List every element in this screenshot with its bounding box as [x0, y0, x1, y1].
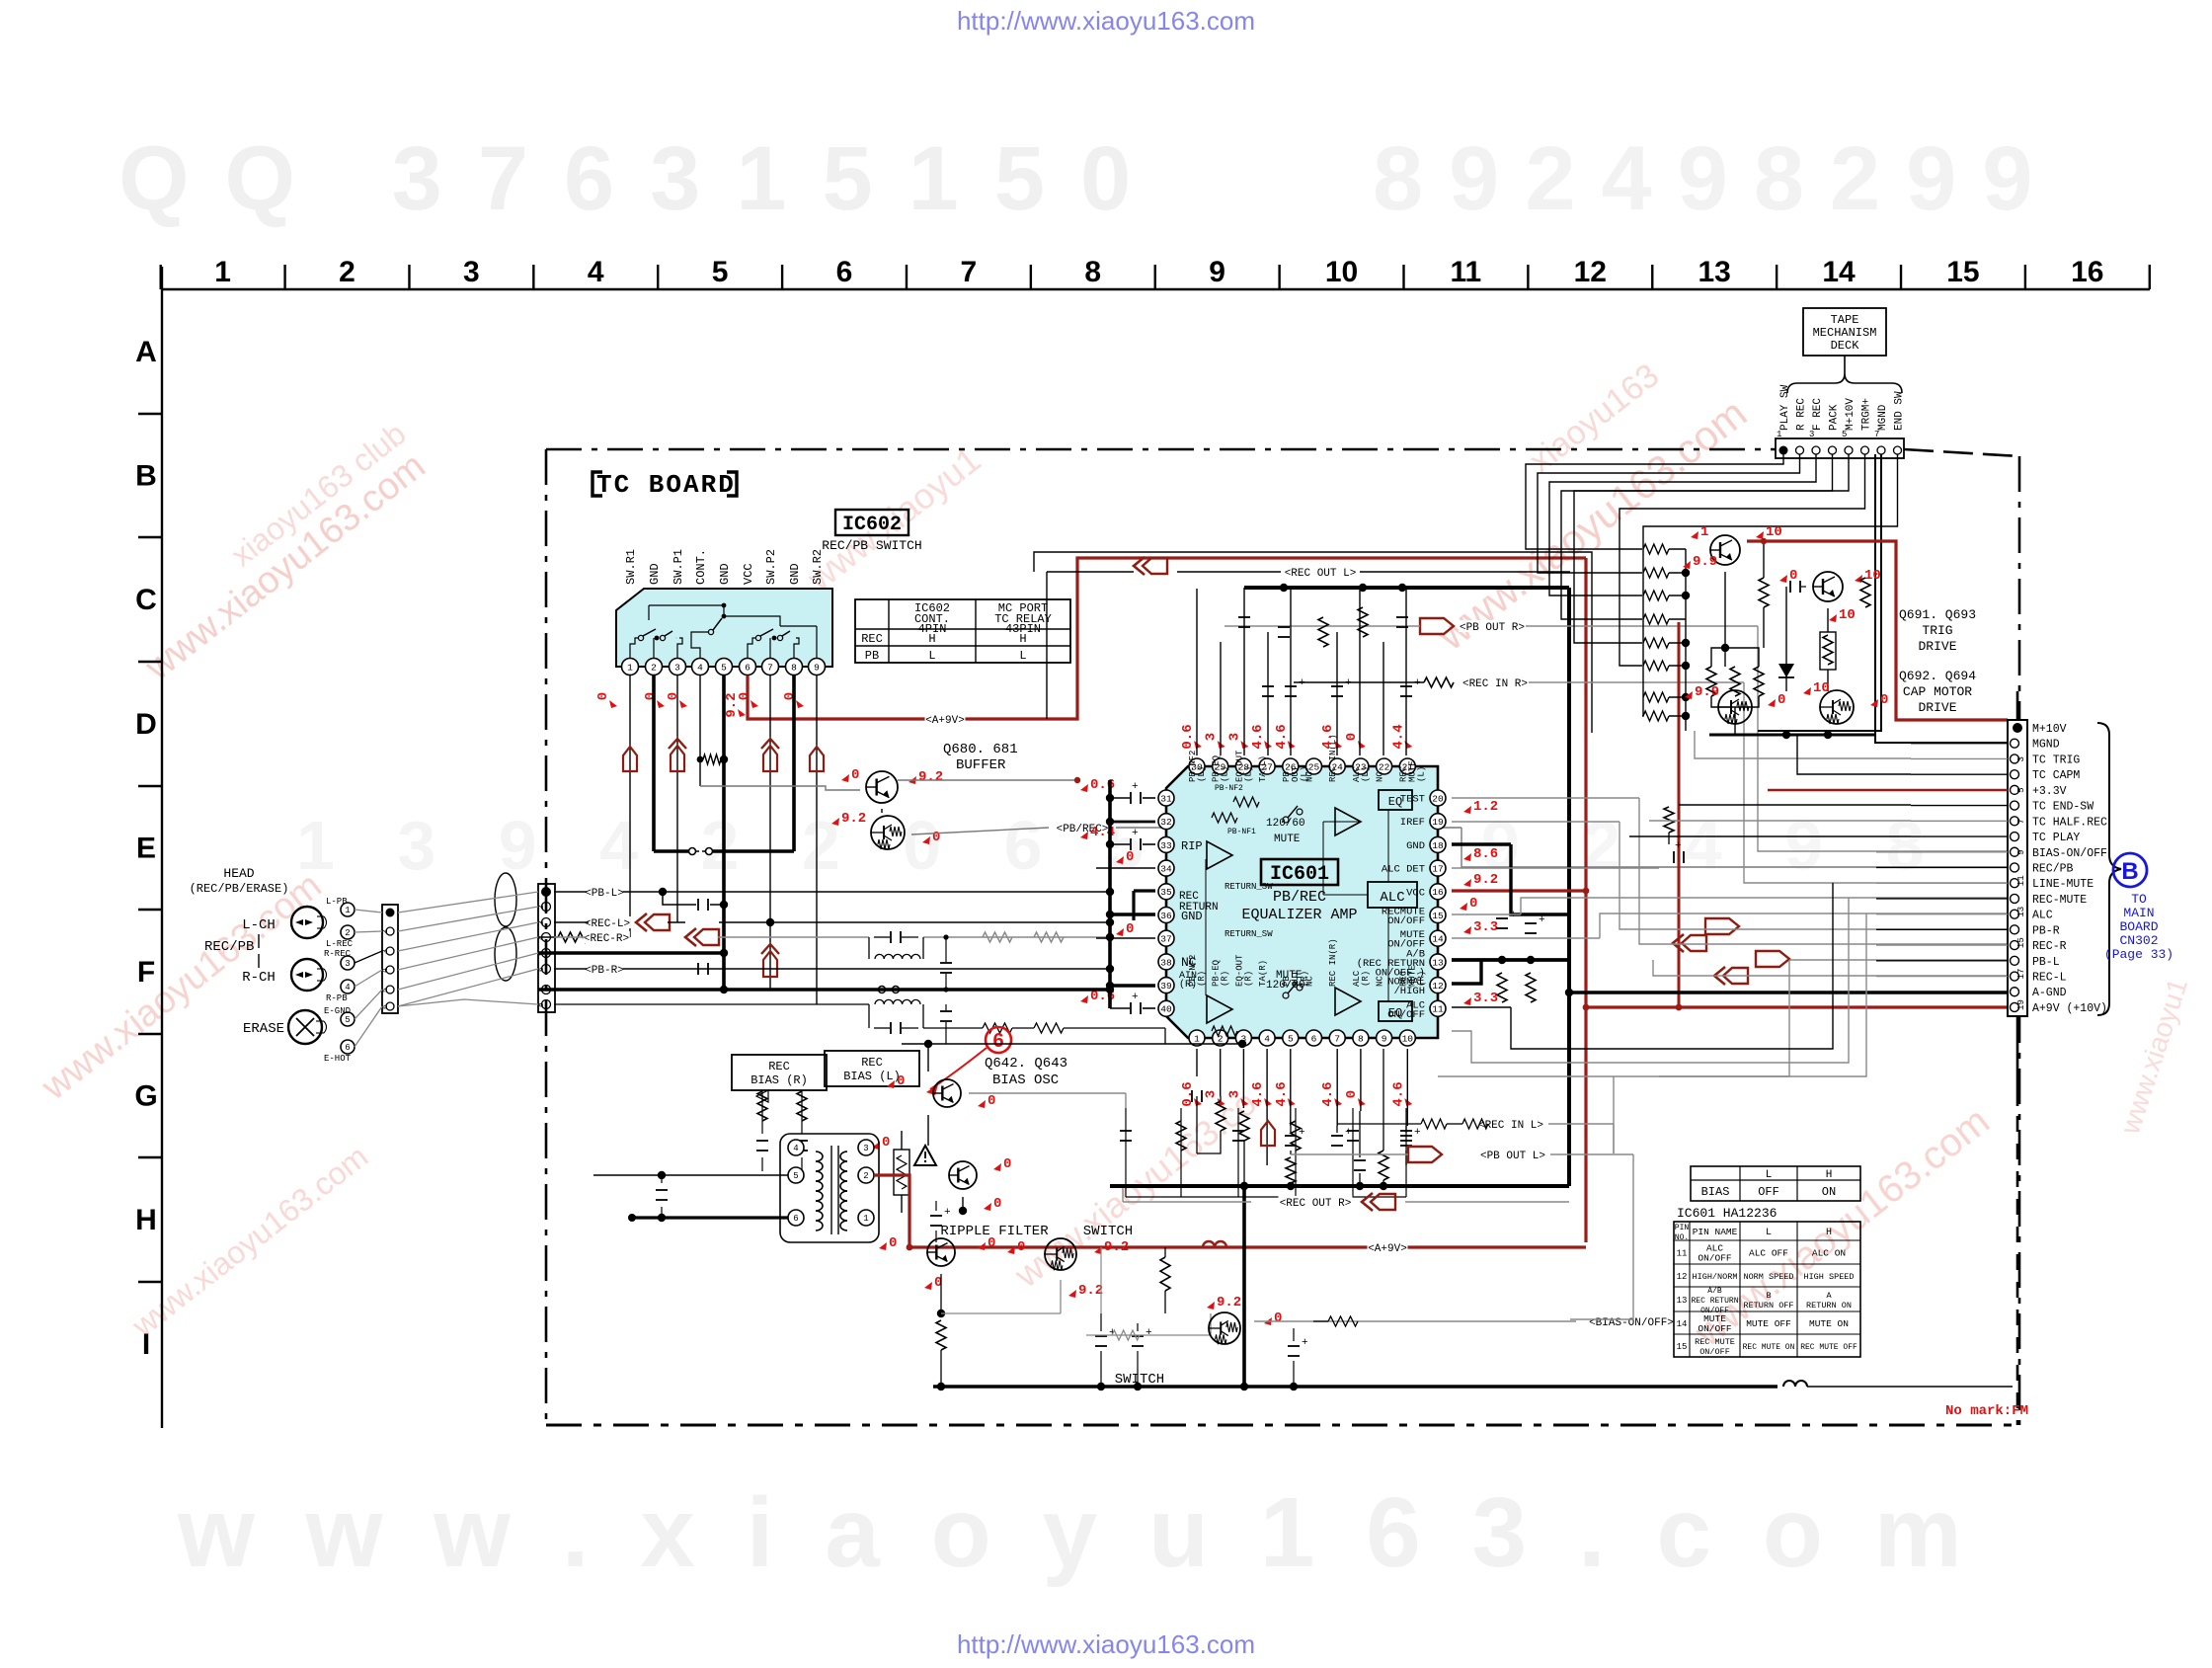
- svg-text:CAP MOTOR: CAP MOTOR: [1903, 684, 1972, 699]
- svg-text:CN302: CN302: [2119, 933, 2158, 948]
- svg-text:<PB-L>: <PB-L>: [585, 888, 624, 900]
- svg-text:Q691. Q693: Q691. Q693: [1899, 607, 1976, 622]
- svg-text:10: 10: [1402, 1033, 1414, 1044]
- IC601 pin 23: [1353, 758, 1369, 774]
- svg-text:H: H: [1826, 1228, 1832, 1238]
- svg-text:GND: GND: [648, 563, 662, 585]
- wire IC602 pin8 gnd thick: [792, 675, 796, 851]
- brace tape deck: [1787, 356, 1902, 393]
- cap transformer left: [656, 1189, 668, 1191]
- ruler tick col 2: [408, 265, 410, 289]
- tape deck pin 2 R REC: [1796, 446, 1804, 454]
- svg-text:6: 6: [836, 256, 853, 288]
- svg-text:REC IN(R): REC IN(R): [1328, 938, 1338, 987]
- svg-text:REC MUTE ON: REC MUTE ON: [1743, 1343, 1795, 1352]
- svg-text:RETURN ON: RETURN ON: [1806, 1301, 1852, 1311]
- IC601 label box: [1261, 859, 1338, 885]
- svg-text:BUFFER: BUFFER: [956, 757, 1006, 773]
- svg-text:0: 0: [1274, 1311, 1282, 1326]
- svg-text:5: 5: [2016, 787, 2026, 792]
- svg-text:9.9: 9.9: [1695, 684, 1719, 700]
- coil in A+9V line: [1203, 1241, 1226, 1247]
- wire harness pb-l: [1626, 959, 1628, 961]
- wire A+9V red to connector: [1586, 1005, 2008, 1008]
- trig drive resistors: [1759, 578, 1769, 607]
- svg-text:<PB OUT R>: <PB OUT R>: [1460, 622, 1525, 634]
- svg-text:15: 15: [1432, 911, 1444, 921]
- wire pin34: [1096, 867, 1155, 869]
- row tick: [138, 909, 162, 911]
- ecap below pin5: [1285, 1135, 1297, 1137]
- svg-text:12: 12: [1574, 256, 1607, 288]
- wire nested black top: [1034, 552, 1592, 733]
- IC602 internal switch mid: [691, 632, 708, 658]
- svg-text:B: B: [2121, 858, 2138, 885]
- svg-text:4: 4: [588, 256, 604, 288]
- svg-text:SWITCH: SWITCH: [1115, 1372, 1164, 1388]
- wires CN302 left stubs: [1911, 743, 2008, 745]
- wire head pin4 to strip: [355, 970, 382, 987]
- svg-text:R-REC: R-REC: [324, 949, 352, 959]
- res series REC-R a: [983, 932, 1012, 942]
- connector CN302 pin 11 LINE-MUTE: [2011, 879, 2019, 888]
- svg-text:SW.R1: SW.R1: [624, 549, 638, 585]
- IC601 pin 19: [1430, 814, 1446, 830]
- svg-text:9.2: 9.2: [1078, 1283, 1103, 1299]
- svg-text:TRIG: TRIG: [1922, 623, 1952, 638]
- signal tag PB OUT L: [1479, 1149, 1546, 1160]
- svg-text:6: 6: [537, 967, 546, 972]
- wire REC OUT L: [1047, 571, 1134, 573]
- IC602 label box: [835, 510, 908, 535]
- connector TC pin 8: [542, 1000, 551, 1009]
- svg-text:+: +: [1132, 828, 1139, 839]
- wire IC602 pin4 down: [699, 675, 701, 786]
- svg-text:0.6: 0.6: [1180, 724, 1196, 749]
- wire A-GND thick row: [538, 988, 1110, 992]
- IC601 pin function table: [1674, 1222, 1860, 1357]
- ruler tick col 1: [283, 265, 285, 289]
- red chevron right b: [1682, 935, 1706, 951]
- svg-text:REC/PB: REC/PB: [204, 939, 254, 955]
- connector CN head pin 1: [386, 909, 395, 917]
- svg-text:L-REC: L-REC: [326, 939, 354, 949]
- svg-text:19: 19: [1432, 817, 1444, 828]
- svg-text:ON/OFF: ON/OFF: [1387, 915, 1425, 927]
- IC601 internal opamp L bottom: [1207, 995, 1232, 1023]
- ruler tick col 16: [2149, 265, 2151, 289]
- svg-text:MUTE: MUTE: [1274, 834, 1301, 845]
- svg-text:3: 3: [1204, 1090, 1220, 1098]
- IC601 body: [1166, 766, 1438, 1038]
- resistor pin4 to VCC: [703, 755, 721, 764]
- svg-text:(Page 33): (Page 33): [2104, 947, 2173, 962]
- svg-text:892498299: 892498299: [1373, 128, 2059, 229]
- svg-text:2: 2: [537, 905, 546, 910]
- svg-text:0: 0: [1003, 1156, 1011, 1172]
- thick gnd bus left of IC601: [1108, 780, 1112, 1008]
- red arrow up mid: [761, 944, 779, 954]
- svg-text:3: 3: [381, 949, 390, 954]
- connector CN302 pin 10 REC/PB: [2011, 863, 2019, 872]
- svg-text:NC: NC: [1305, 771, 1315, 782]
- bottom thick gnd bus IC601: [1110, 1184, 1569, 1188]
- svg-text:(L): (L): [1361, 766, 1371, 782]
- ruler tick col 6: [906, 265, 908, 289]
- signal tag REC-R: [583, 931, 630, 943]
- IC601 pin 28: [1235, 758, 1251, 774]
- svg-text:NO.: NO.: [1675, 1233, 1689, 1242]
- svg-text:+3.3V: +3.3V: [2032, 785, 2067, 798]
- wire gnd link pins 2-8: [654, 849, 688, 853]
- svg-text:3: 3: [345, 959, 350, 969]
- connector TC pin 1: [541, 887, 551, 897]
- wire tape deck pin 7: [1758, 454, 1881, 731]
- wire IC602 pin3 down: [676, 675, 678, 922]
- tape deck pin 1 PLAY SW: [1779, 446, 1788, 455]
- transistor Q642: [933, 1079, 961, 1107]
- wire IC602 pin9 down: [816, 675, 818, 1004]
- svg-text:11: 11: [2016, 875, 2026, 886]
- signal tag REC IN R: [1461, 676, 1529, 688]
- svg-text:RETURN_SW: RETURN_SW: [1224, 882, 1273, 892]
- svg-text:R-PB: R-PB: [326, 993, 348, 1003]
- svg-text:BOARD: BOARD: [2119, 919, 2158, 934]
- svg-text:E: E: [136, 832, 156, 864]
- IC601 pin 37: [1158, 930, 1174, 946]
- TC BOARD border top right segment: [1904, 449, 2019, 456]
- svg-text:18: 18: [1432, 840, 1444, 851]
- ruler tick col 4: [657, 265, 659, 289]
- ripple divider: [940, 1274, 942, 1313]
- wire pin13 thick: [1452, 958, 1569, 962]
- svg-text:ALC ON: ALC ON: [1812, 1248, 1846, 1259]
- IC601 internal EQ box bottom: [1379, 1001, 1412, 1021]
- svg-text:0: 0: [737, 692, 752, 700]
- svg-text:GND: GND: [718, 563, 732, 585]
- circled 6 red: [986, 1027, 1011, 1053]
- wire tape deck pin 1: [1526, 454, 1783, 549]
- ruler tick col 10: [1402, 265, 1404, 289]
- svg-text:REC-MUTE: REC-MUTE: [2032, 894, 2087, 907]
- svg-text:H: H: [928, 632, 935, 646]
- svg-text:40: 40: [1160, 1004, 1172, 1015]
- ruler tick col 14: [1900, 265, 1902, 289]
- svg-text:8: 8: [1358, 1033, 1364, 1044]
- svg-text:REC MUTE OFF: REC MUTE OFF: [1800, 1343, 1857, 1352]
- IC601 pin 33: [1158, 836, 1174, 852]
- svg-text:NC: NC: [1305, 976, 1315, 987]
- TC BOARD dash join top: [1904, 449, 1912, 451]
- svg-text:7: 7: [961, 256, 978, 288]
- resistor R cont line: [558, 932, 588, 942]
- svg-text:+: +: [1345, 677, 1352, 689]
- svg-text:NORM SPEED: NORM SPEED: [1743, 1272, 1793, 1282]
- svg-text:1: 1: [1777, 430, 1781, 439]
- svg-text:TO: TO: [2131, 892, 2147, 907]
- wire tape deck pin 3: [1549, 454, 1816, 596]
- wire Q680 emitter to Q681: [881, 809, 883, 813]
- svg-text:DRIVE: DRIVE: [1918, 639, 1956, 654]
- connector CN302 pin 6 TC END-SW: [2011, 801, 2019, 810]
- svg-text:QQ 376315150: QQ 376315150: [118, 128, 1166, 229]
- red chevron REC-R: [694, 929, 719, 945]
- svg-text:GND: GND: [1406, 840, 1425, 852]
- svg-text:16: 16: [2071, 256, 2103, 288]
- svg-text:REC-R: REC-R: [2032, 940, 2067, 953]
- tape deck connector: [1776, 438, 1904, 458]
- IC601 pin 38: [1158, 954, 1174, 970]
- svg-text:4: 4: [793, 1144, 798, 1153]
- svg-text:<PB OUT L>: <PB OUT L>: [1480, 1151, 1545, 1162]
- svg-text:TC END-SW: TC END-SW: [2032, 801, 2093, 814]
- cap trig: [1789, 581, 1791, 593]
- signal tag PB-R: [585, 963, 625, 975]
- IC601 pin 9: [1377, 1030, 1392, 1046]
- twisted pair symbol lower: [495, 927, 516, 981]
- svg-text:BIAS OSC: BIAS OSC: [992, 1072, 1059, 1088]
- IC601 pin 15: [1430, 908, 1446, 923]
- cap PB-L branch: [663, 892, 696, 905]
- IC601 pin 30: [1189, 758, 1205, 774]
- wire tape deck pin 4: [1561, 454, 1833, 619]
- transistor Q681: [871, 816, 905, 849]
- wires below right of IC601: [1452, 898, 1849, 1063]
- svg-text:12: 12: [1432, 981, 1444, 992]
- row tick: [138, 413, 162, 415]
- IC602 pin 2 GND: [646, 659, 663, 675]
- svg-text:REC/PB: REC/PB: [2032, 862, 2074, 875]
- svg-text:A-GND: A-GND: [2032, 987, 2067, 999]
- IC602 pin 8 GND: [786, 659, 803, 675]
- vertical stubs above IC601: [1196, 589, 1198, 755]
- svg-text:0: 0: [1126, 849, 1134, 865]
- IC601 pin 18: [1430, 836, 1446, 852]
- svg-text:SWITCH: SWITCH: [1083, 1224, 1133, 1239]
- svg-text:1: 1: [627, 662, 633, 673]
- head pin 4: [341, 980, 355, 993]
- wire IC602 pin7 down: [769, 675, 771, 990]
- signal tag PB/REC: [1056, 822, 1110, 834]
- svg-text:D: D: [135, 708, 157, 741]
- svg-text:<REC IN R>: <REC IN R>: [1462, 678, 1528, 690]
- svg-text:4.6: 4.6: [1390, 1081, 1406, 1106]
- IC601 pin 4: [1259, 1030, 1275, 1046]
- svg-text:HEAD: HEAD: [223, 866, 254, 881]
- bottom gnd rail: [933, 1385, 1777, 1388]
- svg-text:(L): (L): [1416, 766, 1426, 782]
- svg-text:IREF: IREF: [1400, 817, 1425, 829]
- red tag right c: [1756, 951, 1789, 967]
- IC601 internal ALC box: [1368, 882, 1417, 908]
- svg-text:9.2: 9.2: [918, 769, 943, 785]
- cap below pin8: [1354, 1159, 1366, 1161]
- svg-text:Q692. Q694: Q692. Q694: [1899, 669, 1976, 683]
- res below pin5b: [1286, 1157, 1296, 1183]
- svg-text:MGND: MGND: [1877, 404, 1889, 431]
- wire head pin3 to strip: [355, 951, 382, 963]
- IC601 pin 21: [1399, 758, 1415, 774]
- svg-text:L: L: [1019, 649, 1026, 663]
- svg-text:L-CH: L-CH: [242, 917, 276, 933]
- svg-text:4: 4: [697, 662, 703, 673]
- svg-text:13: 13: [2016, 907, 2026, 917]
- svg-text:+: +: [1345, 1127, 1352, 1139]
- wire 3.3V red: [1768, 789, 2008, 792]
- head R-CH symbol: [291, 959, 323, 991]
- transistor Q692: [1718, 690, 1752, 724]
- cap PB-R series: [697, 963, 699, 975]
- head pin 5: [341, 1012, 355, 1026]
- transistor Q643: [949, 1161, 977, 1189]
- svg-text:A/B: A/B: [1707, 1287, 1722, 1296]
- IC601 pin 40: [1158, 1000, 1174, 1016]
- svg-text:<A+9V>: <A+9V>: [925, 715, 965, 727]
- svg-text:CONT.: CONT.: [694, 549, 708, 585]
- warning triangle: [914, 1146, 936, 1165]
- svg-text:10: 10: [1325, 256, 1358, 288]
- IC601 internal amp bottom right: [1335, 988, 1361, 1015]
- svg-text:4.6: 4.6: [1250, 724, 1266, 749]
- svg-text:(R): (R): [1243, 971, 1253, 987]
- TC BOARD title bracket left: [592, 472, 602, 496]
- wire stubs below IC601: [1196, 1049, 1198, 1076]
- connector CN302 pin 19 A+9V (+10V): [2011, 1002, 2019, 1011]
- svg-text:TC TRIG: TC TRIG: [2032, 754, 2080, 766]
- svg-text:(L): (L): [1243, 766, 1253, 782]
- head pin 6: [341, 1040, 355, 1054]
- svg-text:+: +: [1299, 1127, 1305, 1139]
- svg-text:(R): (R): [1221, 971, 1230, 987]
- IC601 pin 36: [1158, 908, 1174, 923]
- red arrow up pin7: [761, 739, 779, 749]
- svg-text:GND: GND: [788, 563, 802, 585]
- svg-text:0: 0: [1126, 921, 1134, 937]
- svg-text:TC BOARD: TC BOARD: [596, 470, 736, 500]
- svg-text:VCC: VCC: [1406, 887, 1425, 899]
- svg-text:EQ: EQ: [1388, 795, 1402, 809]
- thick vertical to bottom rail: [1242, 1186, 1246, 1387]
- svg-text:REC-L: REC-L: [2032, 972, 2067, 985]
- cap IC601 pin33: [1130, 838, 1132, 850]
- connector CN302 pin 12 REC-MUTE: [2011, 894, 2019, 903]
- svg-text:ON/OFF: ON/OFF: [1698, 1253, 1732, 1264]
- svg-text:<REC OUT L>: <REC OUT L>: [1285, 568, 1357, 580]
- svg-text:M+10V: M+10V: [2032, 723, 2067, 736]
- jumper on A-GND bus: [877, 986, 901, 993]
- svg-text:E-HOT: E-HOT: [324, 1054, 352, 1064]
- svg-text:3: 3: [1809, 430, 1814, 439]
- svg-text:F REC: F REC: [1812, 398, 1824, 431]
- transistor Q693: [1813, 572, 1843, 601]
- head pin 3: [341, 956, 355, 970]
- svg-text:4.6: 4.6: [1274, 724, 1290, 749]
- TAPE MECHANISM DECK box: [1803, 308, 1886, 356]
- svg-text:3.3: 3.3: [1473, 919, 1498, 935]
- svg-text:REC: REC: [768, 1060, 790, 1073]
- TC BOARD border left: [545, 449, 548, 1425]
- svg-text:5: 5: [721, 662, 727, 673]
- wire IC602 pin6 VCC red: [748, 558, 1586, 719]
- IC601 pin 31: [1158, 790, 1174, 806]
- IC601 pin 3: [1235, 1030, 1251, 1046]
- connector CN302 pin 9 BIAS-ON/OFF: [2011, 847, 2019, 856]
- svg-text:4: 4: [381, 968, 390, 973]
- diode trig: [1785, 652, 1787, 691]
- svg-text:B: B: [135, 460, 157, 493]
- svg-text:(R): (R): [1416, 971, 1426, 987]
- svg-text:7: 7: [1874, 430, 1879, 439]
- svg-text:25: 25: [1308, 761, 1320, 772]
- IC602 pin 7 SW.P2: [762, 659, 779, 675]
- svg-text:20: 20: [1432, 793, 1444, 804]
- head pin 2: [341, 925, 355, 939]
- svg-text:0: 0: [932, 830, 940, 845]
- wire harness line 15: [1452, 913, 1521, 915]
- wire bias-on/off: [1254, 1320, 1576, 1322]
- wire PB-L row: [554, 891, 587, 893]
- svg-text:2: 2: [863, 1171, 868, 1181]
- svg-text:4.6: 4.6: [1320, 1081, 1336, 1106]
- IC601 pin 20: [1430, 790, 1446, 806]
- connector CN302 pin 1 M+10V: [2013, 723, 2022, 733]
- wire PB-R row: [554, 968, 587, 970]
- transistor Q switch lower: [1209, 1312, 1240, 1344]
- svg-text:120/60: 120/60: [1266, 818, 1305, 830]
- svg-text:5: 5: [712, 256, 729, 288]
- red chevron REC OUT L: [1143, 558, 1167, 574]
- IC602 body: [616, 589, 832, 667]
- svg-text:10: 10: [1864, 568, 1881, 584]
- wire IC602 pin1 down: [629, 675, 631, 937]
- svg-text:0: 0: [1344, 733, 1360, 741]
- cap IC601 pin31: [1130, 792, 1132, 804]
- connector CN302 pin 3 TC TRIG: [2011, 755, 2019, 763]
- connector CN302 pin 2 MGND: [2011, 739, 2019, 748]
- svg-text:<REC-R>: <REC-R>: [584, 933, 629, 945]
- svg-text:+: +: [1510, 910, 1517, 921]
- ruler tick col 8: [1154, 265, 1156, 289]
- svg-text:+: +: [1132, 992, 1139, 1003]
- svg-text:3: 3: [1204, 733, 1220, 741]
- REC BIAS R box: [732, 1055, 827, 1090]
- svg-text:35: 35: [1160, 887, 1172, 898]
- svg-text:5: 5: [345, 1015, 350, 1025]
- svg-text:RETURN_SW: RETURN_SW: [1224, 929, 1273, 939]
- IC601 internal EQ box top: [1379, 790, 1412, 810]
- IC602 pin 5 GND: [716, 659, 733, 675]
- wire pin18 GND thick: [1452, 842, 1511, 845]
- svg-text:<REC OUT R>: <REC OUT R>: [1280, 1198, 1352, 1210]
- signal tag A+9V bottom: [1368, 1241, 1408, 1253]
- svg-text:0: 0: [987, 1235, 995, 1251]
- border left line: [161, 267, 163, 1428]
- svg-text:32: 32: [1160, 817, 1172, 828]
- transistor Q ripple: [927, 1238, 955, 1266]
- svg-text:13: 13: [1698, 256, 1730, 288]
- row tick: [138, 1156, 162, 1158]
- svg-text:0: 0: [643, 692, 659, 700]
- svg-text:7: 7: [1334, 1033, 1340, 1044]
- svg-text:H: H: [1826, 1169, 1833, 1181]
- tape deck pin 7 MGND: [1877, 446, 1885, 454]
- wire red branch x1700: [1678, 622, 1681, 1007]
- svg-text:C: C: [135, 584, 157, 616]
- wire thick pin5 row: [538, 951, 724, 955]
- svg-text:A: A: [135, 336, 157, 368]
- svg-text:MUTE OFF: MUTE OFF: [1746, 1318, 1791, 1329]
- svg-text:4.4: 4.4: [1390, 724, 1406, 749]
